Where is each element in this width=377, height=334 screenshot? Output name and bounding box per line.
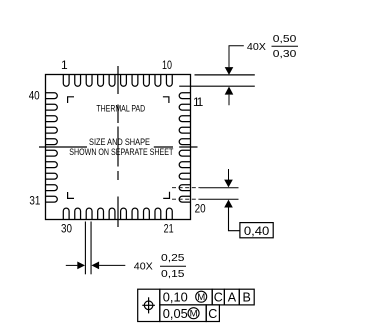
horizontal centerline	[39, 146, 198, 148]
svg-text:1: 1	[197, 95, 204, 109]
pin 5 (top row)	[109, 75, 115, 87]
FCF datum cell C (top)	[212, 289, 224, 305]
svg-text:M: M	[197, 292, 205, 303]
pin 38 (left column)	[46, 116, 58, 122]
pin 18 (right column)	[179, 173, 190, 179]
pin 32 (left column)	[46, 185, 58, 191]
pin 12 (right column)	[179, 104, 190, 110]
svg-text:20: 20	[195, 202, 206, 216]
dim 0,40 up arrow and leader to box	[224, 200, 233, 208]
pin 35 (left column)	[46, 150, 58, 156]
FCF datum cell A	[224, 289, 239, 305]
dim 0,40 dashed extension through pin 19	[172, 187, 200, 189]
svg-text:31: 31	[29, 194, 40, 208]
pin 30 (bottom row)	[63, 208, 69, 219]
feature control frame: position symbol cell	[138, 289, 160, 321]
svg-text:SHOWN ON SEPARATE SHEET: SHOWN ON SEPARATE SHEET	[69, 147, 173, 158]
svg-text:21: 21	[164, 221, 174, 235]
pin 10 (top row)	[166, 75, 172, 87]
pin 22 (bottom row)	[155, 208, 161, 219]
fraction bar 0,25/0,15	[160, 265, 186, 267]
pin 6 (top row)	[121, 75, 127, 87]
pin 20 (right column)	[179, 196, 190, 202]
svg-text:0,25: 0,25	[161, 252, 185, 264]
svg-text:0,40: 0,40	[244, 224, 270, 238]
pin 14 (right column)	[179, 127, 190, 133]
pin 33 (left column)	[46, 173, 58, 179]
svg-text:0,30: 0,30	[273, 48, 297, 60]
pin 3 (top row)	[86, 75, 92, 87]
pin 40 (left column)	[46, 93, 58, 99]
pin 7 (top row)	[132, 75, 138, 87]
dim 0,40 down arrow	[228, 169, 230, 180]
pin 19 (right column)	[179, 185, 190, 191]
pin 29 (bottom row)	[75, 208, 81, 219]
FCF cell 0,05 (M)	[160, 305, 206, 322]
thermal pad corner mark bottom-left	[68, 192, 74, 198]
svg-text:A: A	[228, 291, 237, 305]
dim 0,25/0,15 left extension line	[84, 222, 86, 275]
svg-text:0,05: 0,05	[163, 307, 188, 321]
pin 11 (right column)	[179, 93, 190, 99]
pin 25 (bottom row)	[121, 208, 127, 219]
FCF cell 0,10 (M)	[160, 289, 212, 305]
vertical centerline	[117, 66, 119, 227]
pin 31 (left column)	[46, 196, 58, 202]
svg-text:0,50: 0,50	[273, 33, 297, 45]
svg-text:40X: 40X	[134, 261, 153, 273]
svg-text:0,10: 0,10	[163, 291, 188, 305]
svg-text:1: 1	[61, 58, 68, 72]
position symbol	[144, 301, 153, 310]
pin 28 (bottom row)	[86, 208, 92, 219]
pin 4 (top row)	[98, 75, 104, 87]
svg-text:10: 10	[162, 58, 172, 72]
dim 0,40 dashed extension through pin 20	[172, 198, 200, 200]
dim 0,50/0,30 leader with down arrow	[229, 46, 244, 67]
pin 27 (bottom row)	[98, 208, 104, 219]
dim 0,25/0,15 right extension line	[90, 222, 92, 275]
basic dimension box 0,40	[240, 223, 273, 238]
svg-text:40: 40	[29, 89, 40, 103]
dim 0,25/0,15 left arrow	[66, 264, 78, 266]
pin 13 (right column)	[179, 116, 190, 122]
pin 21 (bottom row)	[166, 208, 172, 219]
FCF datum cell C (bottom)	[206, 305, 219, 322]
pin 17 (right column)	[179, 162, 190, 168]
dim 0,25/0,15 right arrow	[91, 262, 99, 270]
svg-text:B: B	[243, 291, 251, 305]
pin 34 (left column)	[46, 162, 58, 168]
thermal pad corner mark bottom-right	[163, 192, 169, 199]
pin 2 (top row)	[75, 75, 81, 87]
svg-text:C: C	[214, 291, 223, 305]
svg-text:THERMAL PAD: THERMAL PAD	[96, 104, 145, 115]
fraction bar 0,50/0,30	[272, 45, 299, 47]
pin 9 (top row)	[155, 75, 161, 87]
pin 15 (right column)	[179, 139, 190, 145]
thermal pad corner mark top-right	[163, 97, 169, 103]
pin 39 (left column)	[46, 104, 58, 110]
pin 24 (bottom row)	[132, 208, 138, 219]
dim 0,50/0,30 upper extension line	[195, 74, 255, 76]
svg-text:0,15: 0,15	[161, 268, 185, 280]
svg-text:40X: 40X	[247, 41, 266, 53]
svg-text:C: C	[208, 307, 217, 321]
thermal pad corner mark top-left	[68, 97, 74, 103]
pin 16 (right column)	[179, 150, 190, 156]
svg-text:M: M	[190, 309, 198, 320]
pin 37 (left column)	[46, 127, 58, 133]
FCF datum cell B	[239, 289, 254, 305]
dim 0,50/0,30 lower extension line	[179, 85, 255, 87]
pin 23 (bottom row)	[144, 208, 150, 219]
dim 0,50/0,30 up arrow	[225, 87, 234, 95]
pin 8 (top row)	[144, 75, 150, 87]
package outline (QFN body)	[46, 75, 191, 220]
pin 36 (left column)	[46, 139, 58, 145]
pin 26 (bottom row)	[109, 208, 115, 219]
svg-text:30: 30	[61, 221, 72, 235]
pin 1 (top row)	[63, 75, 69, 87]
